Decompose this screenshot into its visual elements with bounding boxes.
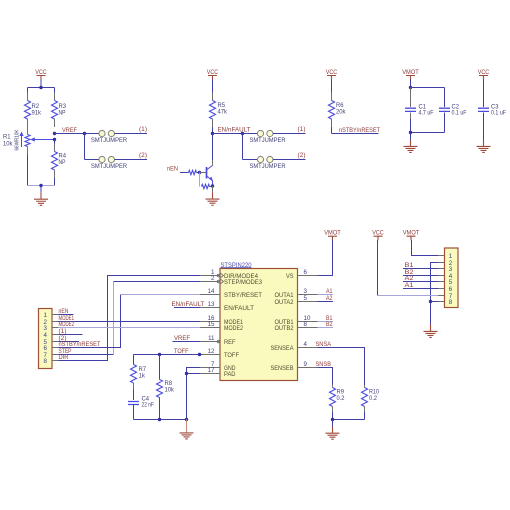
svg-text:0.2: 0.2: [337, 395, 345, 402]
pin 3 J1: [43, 325, 58, 332]
node divider ground junction: [39, 184, 42, 187]
node VREF junction on divider: [53, 132, 56, 141]
pin 5 J2: [438, 279, 453, 286]
wire SNSB: [318, 368, 333, 385]
wire sense rail: [333, 419, 365, 421]
ground: [404, 133, 418, 153]
pin 14 STBY/RESET: [200, 288, 262, 299]
resistor R6: [329, 93, 347, 128]
wire nSTBY/nRESET: [332, 127, 379, 134]
node (1): [139, 126, 147, 133]
jumper SMT2 pad B: [108, 156, 114, 162]
pin 1 J1: [43, 312, 58, 319]
wire: [411, 87, 445, 89]
svg-text:22 nF: 22 nF: [142, 402, 155, 409]
svg-text:0.2: 0.2: [369, 395, 377, 402]
node jumper branch junction: [241, 132, 244, 135]
wire: [28, 88, 55, 93]
capacitor C2: [439, 88, 467, 133]
wire: [40, 80, 42, 88]
svg-text:VMOT: VMOT: [403, 230, 420, 237]
wire A1: [403, 288, 438, 290]
svg-text:EN/FAULT: EN/FAULT: [224, 305, 254, 312]
wire SNSA: [318, 348, 365, 386]
pin 16 MODE1: [200, 315, 243, 326]
node MODE2 label: [59, 321, 75, 328]
svg-text:OUTA1: OUTA1: [275, 292, 294, 299]
svg-text:8: 8: [304, 321, 308, 328]
svg-text:VCC: VCC: [35, 69, 47, 76]
jumper SMT2 pad A: [99, 156, 105, 162]
power VCC net symbol (EN pull-up): [207, 69, 219, 80]
jumper SMT1 pad B: [108, 130, 114, 136]
node A2 label: [326, 295, 333, 302]
svg-text:OUTB2: OUTB2: [275, 325, 294, 332]
svg-text:VCC: VCC: [207, 69, 219, 76]
svg-text:47k: 47k: [218, 109, 228, 116]
node TOFF label: [174, 348, 189, 355]
node nSTBY/nRESET label: [59, 341, 101, 348]
pin 7 J1: [43, 352, 58, 359]
svg-text:SENSEA: SENSEA: [271, 345, 295, 352]
wire A2: [403, 281, 438, 283]
pin 11 REF: [200, 335, 236, 346]
label SMTJUMPER: [250, 163, 286, 170]
wire (1): [273, 133, 306, 135]
node B1 label: [326, 315, 333, 322]
svg-text:6: 6: [449, 286, 453, 293]
svg-text:6: 6: [304, 269, 308, 276]
wire nEN: [59, 314, 74, 316]
svg-text:R1: R1: [3, 134, 11, 141]
pin 2 STEP/MODE3: [200, 275, 262, 286]
ground: [206, 192, 220, 205]
pin 5 OUTA2: [275, 295, 318, 306]
node B2 label: [326, 321, 333, 328]
node emitter junction: [211, 184, 214, 187]
svg-text:(1): (1): [139, 126, 147, 133]
svg-text:91k: 91k: [32, 110, 42, 117]
pin 12 TOFF: [200, 348, 239, 359]
wire B2: [318, 327, 334, 329]
svg-text:VREF: VREF: [174, 335, 190, 342]
svg-text:VMOT: VMOT: [402, 69, 419, 76]
wire (2): [59, 341, 80, 343]
svg-text:REF: REF: [224, 339, 236, 346]
pin 13 EN/FAULT: [200, 301, 254, 312]
svg-text:2: 2: [211, 275, 215, 282]
svg-text:4: 4: [43, 332, 47, 339]
ground: [180, 420, 194, 439]
svg-text:MODE2: MODE2: [224, 325, 243, 332]
power VCC net symbol (C3): [478, 69, 490, 80]
pin 9 SENSEB: [271, 361, 318, 372]
node EN/nFAULT label: [172, 301, 205, 308]
svg-text:5: 5: [304, 295, 308, 302]
svg-text:3: 3: [43, 325, 47, 332]
svg-text:9: 9: [304, 361, 308, 368]
node (1): [298, 126, 306, 133]
node DIR label: [59, 354, 69, 361]
wire B1: [318, 321, 334, 323]
node B1 label: [405, 262, 414, 269]
svg-text:5: 5: [449, 279, 453, 286]
pin 4 J1: [43, 332, 58, 339]
wire: [212, 186, 214, 193]
wire MODE1: [59, 321, 201, 323]
svg-text:nSTBY/nRESET: nSTBY/nRESET: [59, 341, 101, 348]
svg-text:20k: 20k: [336, 109, 346, 116]
wire VMOT to pin 1: [412, 240, 439, 256]
pin 17 PAD: [200, 367, 236, 378]
wire: [180, 172, 189, 174]
node (2): [298, 152, 306, 159]
node nEN label: [59, 308, 69, 315]
svg-text:VMOT: VMOT: [324, 230, 341, 237]
svg-text:10k: 10k: [165, 387, 175, 394]
svg-text:8: 8: [449, 299, 453, 306]
pin 5 J1: [43, 339, 58, 346]
wire: [200, 172, 207, 174]
node SNSB label: [316, 361, 332, 368]
pin 4 J2: [438, 273, 453, 280]
jumper SMT3 pad A: [257, 130, 263, 136]
svg-text:nEN: nEN: [167, 166, 178, 173]
pin 1 J2: [438, 253, 453, 260]
wire VCC to pin 7: [378, 240, 439, 296]
svg-text:8: 8: [43, 358, 47, 365]
svg-text:nEN: nEN: [59, 308, 69, 315]
svg-text:A1: A1: [405, 282, 414, 289]
svg-text:0.1 uF: 0.1 uF: [452, 110, 467, 117]
svg-text:B1: B1: [405, 262, 414, 269]
label SMTJUMPER: [91, 137, 127, 144]
node VCC rail junction: [39, 86, 42, 89]
wire EN/nFAULT: [174, 307, 200, 309]
power VMOT net symbol (caps): [402, 69, 419, 80]
ground: [477, 140, 491, 152]
svg-text:17: 17: [208, 367, 215, 374]
svg-text:3: 3: [304, 288, 308, 295]
svg-text:VREF: VREF: [62, 127, 77, 134]
ground: [326, 420, 340, 440]
wire: [212, 80, 214, 93]
connector J1 body: [39, 309, 53, 369]
svg-text:TOFF: TOFF: [174, 348, 189, 355]
node SNSA label: [316, 341, 332, 348]
node nEN label: [167, 166, 178, 173]
resistor R8: [157, 355, 175, 420]
node MODE1 label: [59, 315, 75, 322]
pin 7 GND: [200, 361, 236, 372]
pin 4 SENSEA: [271, 341, 318, 352]
node sense junction: [331, 418, 334, 421]
svg-text:10k: 10k: [3, 141, 13, 148]
svg-text:VCC: VCC: [326, 69, 338, 76]
wire: [85, 133, 99, 135]
wire: [411, 132, 445, 134]
wire (2): [115, 159, 148, 161]
svg-text:1: 1: [43, 312, 47, 319]
wire: [410, 80, 412, 88]
pin 2 J2: [438, 260, 453, 267]
svg-text:12: 12: [208, 348, 215, 355]
label SMTJUMPER: [91, 163, 127, 170]
wire ground rail: [134, 419, 187, 421]
svg-text:13: 13: [208, 301, 215, 308]
svg-text:66WR10K: 66WR10K: [15, 129, 21, 150]
svg-text:EN/nFAULT: EN/nFAULT: [218, 127, 251, 134]
wire (2): [273, 159, 306, 161]
wire: [410, 119, 412, 133]
svg-text:A1: A1: [326, 288, 333, 295]
svg-text:4: 4: [304, 341, 308, 348]
node base junction: [198, 171, 201, 174]
connector J2 body: [445, 248, 459, 308]
resistor R9: [330, 385, 345, 420]
node (2) label: [59, 335, 67, 342]
power VMOT net symbol (VS): [324, 230, 341, 241]
pin 10 OUTB1: [275, 315, 318, 326]
capacitor C3: [478, 80, 506, 141]
resistor R2: [25, 93, 42, 128]
pin 8 OUTB2: [275, 321, 318, 332]
svg-text:B2: B2: [326, 321, 333, 328]
svg-text:4.7 uF: 4.7 uF: [419, 110, 434, 117]
svg-text:NP: NP: [59, 159, 66, 166]
svg-text:nSTBY/nRESET: nSTBY/nRESET: [339, 127, 380, 134]
wire STEP: [59, 282, 201, 355]
svg-text:1: 1: [449, 253, 453, 260]
node EN/nFAULT: [211, 127, 251, 136]
svg-text:OUTA2: OUTA2: [275, 299, 294, 306]
wire A2: [318, 301, 334, 303]
node (1) label: [59, 328, 67, 335]
node cap bottom junction: [409, 131, 412, 134]
svg-text:VCC: VCC: [478, 69, 490, 76]
node A2 label: [405, 275, 414, 282]
wire (1): [59, 334, 83, 336]
wire: [213, 133, 243, 135]
wire collector feed: [212, 134, 214, 166]
resistor R4: [52, 144, 67, 179]
capacitor C1: [405, 88, 434, 120]
wire (1): [115, 133, 148, 135]
node STEP label: [59, 348, 72, 355]
svg-text:(2): (2): [139, 152, 147, 159]
pin 6 VS: [286, 269, 318, 280]
wire motor ground: [431, 263, 439, 325]
pin 6 J2: [438, 286, 453, 293]
wire VREF: [55, 134, 85, 144]
svg-text:A2: A2: [405, 275, 414, 282]
wire: [243, 134, 258, 160]
svg-text:SNSA: SNSA: [316, 341, 332, 348]
svg-text:(1): (1): [59, 328, 67, 335]
wire: [27, 155, 29, 186]
wire TOFF: [134, 354, 201, 356]
wire nSTBY/nRESET: [59, 295, 201, 348]
wire GND pin: [187, 368, 201, 420]
jumper SMT4 pad B: [267, 156, 273, 162]
resistor R5: [210, 93, 228, 128]
resistor R10: [362, 385, 380, 420]
svg-text:SMTJUMPER: SMTJUMPER: [91, 137, 127, 144]
svg-text:EN/nFAULT: EN/nFAULT: [172, 301, 205, 308]
svg-text:MODE2: MODE2: [59, 321, 75, 328]
svg-text:SNSB: SNSB: [316, 361, 332, 368]
power VCC net symbol (divider): [35, 69, 47, 80]
node VREF: [62, 127, 86, 135]
pin 1 DIR/MODE4: [200, 269, 258, 280]
svg-text:STEP/MODE3: STEP/MODE3: [224, 279, 262, 286]
power VCC net symbol (J2): [372, 230, 384, 241]
svg-text:NP: NP: [59, 110, 66, 117]
pin 3 OUTA1: [275, 288, 318, 299]
pin 3 J2: [438, 266, 453, 273]
jumper SMT3 pad B: [267, 130, 273, 136]
svg-text:3: 3: [449, 266, 453, 273]
wire: [197, 172, 200, 174]
svg-text:SMTJUMPER: SMTJUMPER: [91, 163, 127, 170]
wire: [85, 134, 99, 160]
node VREF label: [174, 335, 190, 342]
svg-text:6: 6: [43, 345, 47, 352]
svg-text:15: 15: [208, 321, 215, 328]
node rail junctions: [158, 418, 188, 421]
wire: [431, 301, 439, 303]
svg-text:(1): (1): [298, 126, 306, 133]
power VMOT net symbol (J2): [403, 230, 420, 241]
wire B1: [403, 268, 438, 270]
svg-text:SMTJUMPER: SMTJUMPER: [250, 163, 286, 170]
pin 6 J1: [43, 345, 58, 352]
node PAD junction: [185, 372, 188, 375]
wire PAD pin: [187, 373, 201, 375]
svg-text:VCC: VCC: [372, 230, 384, 237]
resistor base pulldown: [200, 173, 213, 189]
svg-text:14: 14: [208, 288, 215, 295]
node nSTBY/nRESET: [339, 127, 380, 134]
svg-text:SMTJUMPER: SMTJUMPER: [250, 137, 286, 144]
svg-text:SENSEB: SENSEB: [271, 365, 294, 372]
node cap top junction: [409, 86, 412, 89]
wire: [28, 178, 55, 186]
svg-text:PAD: PAD: [224, 371, 236, 378]
capacitor C4: [128, 390, 154, 420]
svg-text:(2): (2): [298, 152, 306, 159]
label SMTJUMPER: [250, 137, 286, 144]
jumper SMT1 pad A: [99, 130, 105, 136]
node B2 label: [405, 269, 414, 276]
ground: [424, 325, 438, 338]
wire VS: [318, 240, 333, 276]
svg-text:VS: VS: [286, 273, 294, 280]
resistor R3: [52, 93, 67, 128]
svg-text:0.1 uF: 0.1 uF: [491, 110, 506, 117]
op-amp U1 STSPIN220 body: [220, 262, 298, 381]
svg-text:11: 11: [208, 335, 215, 342]
pin 15 MODE2: [200, 321, 243, 332]
node (2): [139, 152, 147, 159]
svg-text:1k: 1k: [139, 373, 146, 380]
wire MODE2: [59, 327, 201, 329]
wire DIR: [59, 276, 201, 361]
ground: [34, 186, 48, 206]
node motor ground junction: [429, 300, 432, 303]
potentiometer R1: [3, 127, 55, 155]
pin 8 J2: [438, 299, 453, 306]
svg-text:DIR: DIR: [59, 354, 69, 361]
node A1 label: [326, 288, 333, 295]
svg-text:A2: A2: [326, 295, 333, 302]
pin 7 J2: [438, 293, 453, 300]
pin 2 J1: [43, 319, 58, 326]
transistor Q1: [207, 166, 214, 186]
svg-text:STBY/RESET: STBY/RESET: [224, 292, 262, 299]
svg-text:TOFF: TOFF: [224, 352, 239, 359]
node TOFF junctions: [158, 353, 201, 356]
resistor R7: [131, 355, 147, 391]
node A1 label: [405, 282, 414, 289]
wire B2: [403, 275, 438, 277]
power VCC net symbol (R6): [326, 69, 338, 80]
resistor base series: [189, 170, 197, 174]
wire A1: [318, 294, 334, 296]
pin 8 J1: [43, 358, 58, 365]
wire VREF: [173, 341, 201, 343]
wire: [212, 127, 214, 134]
jumper SMT4 pad A: [257, 156, 263, 162]
wire: [331, 80, 333, 93]
wire: [243, 133, 258, 135]
